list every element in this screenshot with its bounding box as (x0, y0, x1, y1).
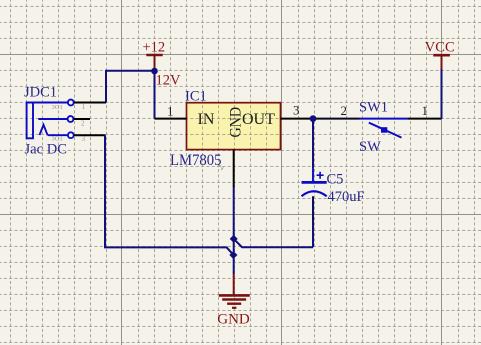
svg-text:470uF: 470uF (328, 189, 365, 205)
pin stub jack 2 (74, 118, 91, 120)
svg-text:SW1: SW1 (359, 100, 388, 116)
connector JDC1 pin1 line (27, 102, 68, 104)
pin IC1 1 line (155, 118, 187, 120)
power symbol +12 bar (146, 54, 162, 57)
svg-text:SW: SW (359, 139, 381, 155)
switch SW1 bar (360, 118, 409, 120)
wire jack pin1 up (106, 71, 155, 103)
capacitor C5 top plate (302, 181, 327, 184)
connector JDC1 barrel (27, 103, 33, 139)
wire 12V down to IC pin1 (154, 71, 156, 119)
ground stem (233, 274, 235, 295)
ground bar1 (219, 294, 250, 297)
svg-text:1: 1 (167, 103, 174, 118)
svg-text:OUT: OUT (242, 111, 275, 128)
connector JDC1 pin3 line (48, 134, 68, 136)
junction node rail lower (229, 251, 237, 259)
pin sw1 right line (408, 118, 442, 120)
svg-text:Jac DC: Jac DC (25, 142, 68, 158)
connector JDC1 pin1 circle (68, 100, 74, 106)
svg-text:12V: 12V (156, 73, 182, 89)
regulator IC1 body fill (187, 103, 281, 150)
svg-text:2: 2 (341, 103, 348, 118)
power symbol VCC stem (441, 55, 443, 69)
svg-text:1: 1 (422, 103, 429, 118)
capacitor C5 curved plate (302, 191, 327, 196)
wire C5 to rail (312, 220, 314, 247)
wire IC out to switch (313, 118, 360, 120)
svg-text:GND: GND (217, 312, 250, 328)
capacitor C5 bottom lead (312, 196, 314, 220)
svg-text:2: 2 (81, 120, 85, 128)
pin IC1 2 line (233, 150, 235, 187)
connector JDC1 pin3 circle (68, 132, 74, 138)
junction node 12V (151, 68, 158, 75)
svg-text:3: 3 (293, 103, 300, 118)
svg-text:C5: C5 (327, 172, 344, 188)
connector JDC1 switch contact (40, 125, 48, 135)
svg-text:JDC1: JDC1 (24, 84, 57, 100)
power symbol +12 stem (154, 55, 156, 69)
regulator IC1 body outline (187, 103, 281, 150)
wire junction down to C5 (312, 119, 314, 168)
power symbol VCC bar (433, 54, 450, 57)
wire jack pin3 down left rail (105, 135, 233, 255)
svg-text:VCC: VCC (425, 40, 455, 56)
junction node rail upper (230, 235, 238, 243)
svg-text:1: 1 (82, 103, 86, 111)
svg-text:+12: +12 (143, 40, 166, 56)
svg-text:3: 3 (82, 135, 86, 143)
svg-text:IN: IN (198, 111, 215, 128)
wire switch to VCC (441, 69, 443, 119)
pin IC1 3 line (281, 118, 314, 120)
connector JDC1 pin2 line (38, 118, 67, 120)
switch SW1 slider square (381, 127, 387, 133)
switch SW1 lever (369, 123, 402, 138)
connector JDC1 pin2 circle (68, 116, 74, 122)
wire rail right to cap (234, 239, 313, 247)
junction node OUT (310, 115, 317, 122)
capacitor C5 top lead (312, 168, 314, 181)
pin stub jack 1 (74, 102, 106, 104)
ground bar2 (222, 298, 246, 300)
wire IC gnd down (233, 187, 235, 274)
svg-text:3O1: 3O1 (52, 136, 63, 143)
pin stub jack 3 (74, 134, 106, 136)
ground bar3 (227, 303, 241, 305)
ground bar4 (232, 307, 236, 309)
capacitor C5 plus sign (317, 172, 324, 179)
svg-text:3O1: 3O1 (52, 104, 63, 111)
